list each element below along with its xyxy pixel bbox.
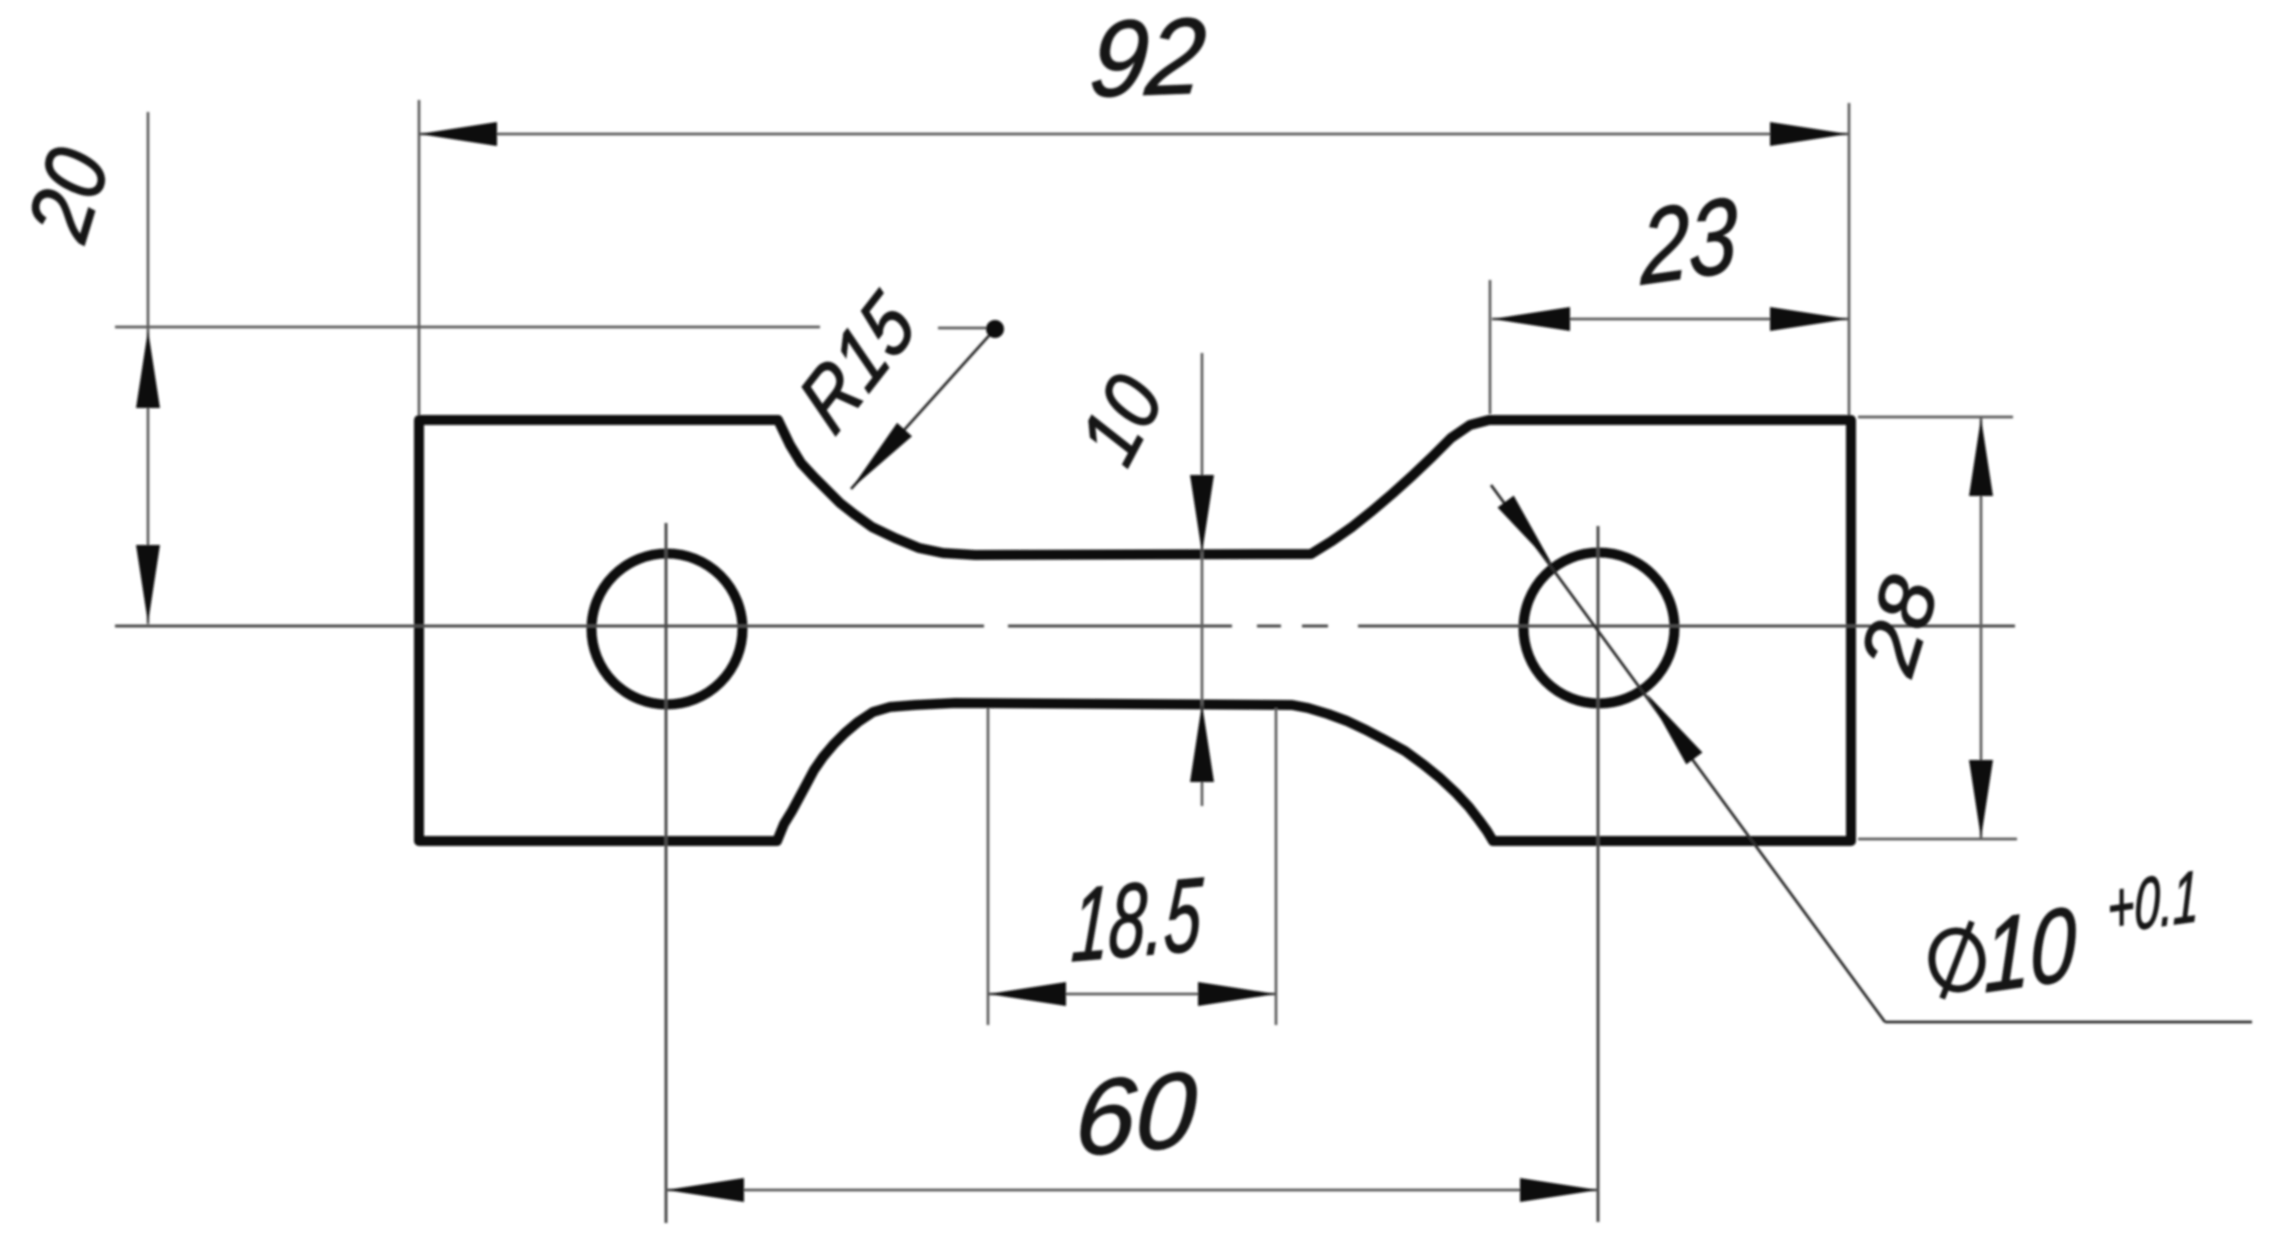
- centerline horizontal: [115, 625, 2015, 628]
- dim 20 arrow bottom: [136, 545, 160, 623]
- svg-text:92: 92: [1085, 0, 1211, 119]
- dim 23 arrow right: [1770, 307, 1848, 331]
- dim 23 arrow left: [1492, 307, 1570, 331]
- leader hole callout arrow upper: [1498, 496, 1561, 572]
- dim 20 arrow top: [136, 330, 160, 408]
- svg-text:18.5: 18.5: [1069, 856, 1205, 985]
- dim 28 extension bottom: [1858, 838, 2017, 841]
- leader R15 arrow: [844, 423, 912, 496]
- dim 60 line: [666, 1189, 1598, 1192]
- dim 23 extension left: [1489, 280, 1492, 414]
- dim 18.5 line: [988, 993, 1276, 996]
- dim 20 line: [147, 112, 150, 624]
- dim 18.5 arrow right: [1198, 982, 1276, 1006]
- dim 20 extension top: [115, 326, 820, 329]
- dim 92 arrow left: [419, 122, 497, 146]
- dim 92 line: [419, 133, 1848, 136]
- dim 60 arrow left: [666, 1178, 744, 1202]
- centerline hole left vertical: [665, 523, 668, 1223]
- label diameter symbol: [1927, 921, 1987, 999]
- dim 92 arrow right: [1770, 122, 1848, 146]
- dim 92 extension left: [418, 100, 421, 415]
- leader hole callout diagonal: [1491, 485, 1885, 1022]
- dim 28 extension top: [1858, 416, 2013, 419]
- dim 92 extension right: [1848, 103, 1851, 415]
- svg-text:10: 10: [1984, 885, 2076, 1016]
- dim 23 line: [1492, 318, 1848, 321]
- part outline (dogbone tensile specimen): [419, 420, 1851, 841]
- centerline hole right vertical: [1597, 526, 1600, 1222]
- hole right: [1524, 553, 1675, 704]
- dim 10 arrow top: [1190, 475, 1214, 553]
- leader R15 line: [851, 329, 995, 489]
- hole left: [592, 554, 743, 705]
- leader hole callout horizontal: [1885, 1021, 2252, 1024]
- dim 18.5 extension left: [987, 708, 990, 1025]
- leader hole callout arrow lower: [1639, 688, 1702, 764]
- dim 60 arrow right: [1520, 1178, 1598, 1202]
- dim 28 arrow top: [1969, 418, 1993, 496]
- svg-text:+0.1: +0.1: [2107, 856, 2198, 949]
- dim 10 line: [1201, 353, 1204, 806]
- svg-text:60: 60: [1073, 1049, 1200, 1179]
- dim 28 line: [1980, 418, 1983, 838]
- dim 18.5 arrow left: [988, 982, 1066, 1006]
- dim 18.5 extension right: [1275, 708, 1278, 1025]
- dim 28 arrow bottom: [1969, 760, 1993, 838]
- dim 10 arrow bottom: [1190, 704, 1214, 782]
- svg-text:23: 23: [1640, 174, 1737, 307]
- leader R15 dot: [986, 320, 1004, 338]
